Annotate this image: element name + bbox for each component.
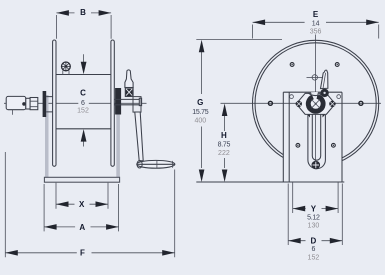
- svg-text:5.12: 5.12: [307, 215, 320, 222]
- column right wall: [341, 92, 343, 182]
- axle centerline: [4, 102, 147, 104]
- axle end cap: [139, 98, 141, 105]
- right frame leg: [116, 114, 120, 177]
- hub bolt left: [296, 101, 302, 107]
- plate corner bolt right: [337, 95, 341, 99]
- bolt hole left: [268, 101, 272, 105]
- hub bolt right: [329, 101, 335, 107]
- inlet swivel body: [6, 96, 26, 109]
- flange inner rim circle: [255, 43, 376, 164]
- svg-text:8.75: 8.75: [218, 141, 231, 148]
- svg-text:130: 130: [308, 222, 320, 229]
- right flange: [111, 40, 114, 166]
- svg-text:F: F: [80, 249, 85, 258]
- hub cylinder lines: [46, 97, 52, 112]
- dimension B line: [56, 10, 111, 39]
- crank arm: [135, 112, 143, 161]
- hub mount plate: [296, 93, 335, 114]
- hub top latch plate: [309, 93, 324, 95]
- flange outer circle: [253, 40, 379, 166]
- column left outer wall: [282, 92, 284, 182]
- svg-text:G: G: [197, 98, 203, 107]
- pawl block: [125, 88, 133, 97]
- ratchet gear on drum: [62, 62, 71, 75]
- svg-text:222: 222: [218, 150, 230, 157]
- dimension F: [5, 152, 174, 257]
- pawl pivot circle: [307, 75, 323, 80]
- svg-text:C: C: [80, 88, 86, 97]
- dimension X: [56, 183, 108, 209]
- svg-text:H: H: [221, 131, 227, 140]
- crank hub: [133, 97, 141, 113]
- pawl pivot bolt (front): [320, 89, 328, 97]
- drum top line: [56, 74, 111, 76]
- column top plate: [283, 91, 342, 93]
- svg-text:A: A: [79, 223, 85, 232]
- inlet stub: [12, 110, 14, 115]
- left frame leg: [45, 95, 49, 177]
- column left inner wall: [288, 92, 290, 182]
- left flange: [53, 40, 56, 166]
- svg-text:152: 152: [308, 255, 320, 262]
- svg-text:D: D: [311, 236, 317, 245]
- arm shading left: [302, 109, 310, 118]
- dimension D: [288, 184, 342, 246]
- inlet shaft dot: [22, 102, 26, 106]
- ratchet ring: [306, 92, 326, 114]
- svg-text:6: 6: [311, 246, 315, 253]
- bolt hole upper-right: [335, 63, 339, 67]
- bolt hole lower-left: [296, 143, 300, 147]
- vertical centerline over column: [315, 92, 317, 168]
- roller arm outer: [308, 115, 326, 169]
- dimension C arrows: [83, 54, 85, 146]
- svg-text:6: 6: [81, 100, 85, 107]
- dimension E: [253, 20, 379, 39]
- dimension A: [44, 184, 119, 231]
- crank grip: [137, 160, 175, 168]
- base surface line: [196, 181, 344, 183]
- pawl lever (front): [321, 70, 328, 88]
- bolt hole right: [359, 101, 363, 105]
- pawl pivot bolt: [126, 88, 133, 96]
- svg-text:14: 14: [312, 20, 320, 27]
- right bearing block: [115, 88, 121, 115]
- svg-text:152: 152: [77, 108, 89, 115]
- column body masking circle: [283, 92, 342, 182]
- dimension Y: [293, 182, 338, 213]
- pawl lever (side): [125, 70, 133, 88]
- roller arm slot: [312, 112, 320, 160]
- inlet end cap: [26, 98, 30, 109]
- plate corner bolt left: [290, 95, 294, 99]
- dimension H: [222, 104, 228, 183]
- swivel nut: [30, 98, 38, 110]
- axle: [114, 99, 139, 104]
- dimension G: [199, 40, 205, 182]
- svg-text:X: X: [79, 200, 85, 209]
- horizontal centerline: [221, 102, 382, 104]
- horizontal centerline over column: [283, 102, 342, 104]
- frame base (side): [44, 177, 119, 182]
- svg-text:Y: Y: [311, 204, 317, 213]
- vertical centerline: [315, 35, 317, 169]
- top extension line: [196, 39, 282, 41]
- svg-text:E: E: [313, 10, 319, 19]
- svg-text:15.75: 15.75: [192, 109, 208, 116]
- arm end bolt: [312, 161, 321, 170]
- svg-text:400: 400: [194, 117, 206, 124]
- arm shading right: [323, 109, 331, 118]
- left bearing block: [43, 91, 47, 117]
- drum bottom line: [56, 128, 111, 130]
- bolt hole lower-right: [332, 143, 336, 147]
- svg-text:B: B: [80, 8, 86, 17]
- bolt hole upper-left: [290, 63, 294, 67]
